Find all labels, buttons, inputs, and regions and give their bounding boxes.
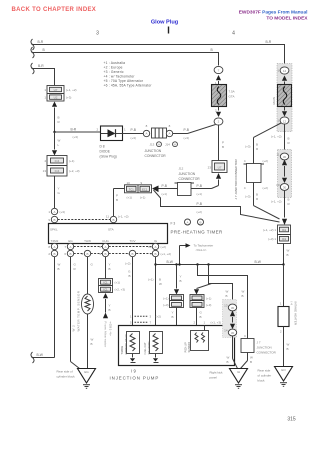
svg-text:1: 1 (124, 128, 126, 132)
svg-text:Right kick: Right kick (210, 371, 224, 375)
svg-text:CONTROL VALVE: CONTROL VALVE (125, 334, 128, 355)
svg-text:B: B (159, 278, 161, 282)
svg-text:INTAKE HEATER: INTAKE HEATER (294, 302, 298, 326)
svg-text:+4 : w/ Tachometer: +4 : w/ Tachometer (104, 75, 136, 79)
svg-text:W: W (287, 249, 290, 253)
svg-text:A: A (158, 143, 160, 147)
svg-text:R: R (256, 197, 259, 201)
svg-text:B: B (211, 48, 214, 52)
svg-text:THW: THW (84, 239, 91, 243)
svg-text:R: R (288, 202, 291, 206)
svg-text:B-W: B-W (167, 260, 174, 264)
svg-text:+2 : Europe: +2 : Europe (104, 66, 123, 70)
svg-text:CONNECTOR: CONNECTOR (145, 154, 167, 158)
svg-text:B: B (91, 342, 93, 346)
svg-text:JUNCTION: JUNCTION (179, 172, 196, 176)
svg-text:R: R (58, 120, 61, 124)
svg-text:30: 30 (283, 185, 287, 189)
svg-text:1: 1 (44, 96, 46, 100)
svg-text:(+1): (+1) (140, 196, 145, 200)
svg-text:IC4: IC4 (55, 169, 60, 173)
svg-text:B: B (227, 360, 229, 364)
svg-text:CHG: CHG (102, 239, 109, 243)
svg-text:I 9: I 9 (131, 369, 136, 374)
svg-text:(+1, +3): (+1, +3) (211, 321, 222, 325)
svg-text:(+1): (+1) (115, 281, 120, 285)
svg-text:(+1): (+1) (163, 297, 168, 301)
svg-text:2: 2 (48, 252, 50, 256)
svg-text:B: B (256, 193, 258, 197)
svg-text:(+3): (+3) (60, 210, 65, 214)
svg-text:(+1): (+1) (127, 196, 132, 200)
svg-text:R: R (288, 141, 291, 145)
svg-text:(+1): (+1) (148, 278, 153, 282)
svg-text:CONNECTOR: CONNECTOR (179, 177, 201, 181)
svg-text:B: B (288, 137, 290, 141)
svg-text:+1 : Australia: +1 : Australia (104, 61, 126, 65)
svg-text:A: A (53, 245, 55, 249)
svg-text:(+1): (+1) (197, 192, 202, 196)
svg-text:P-B: P-B (197, 202, 203, 206)
svg-text:12: 12 (283, 120, 287, 124)
svg-text:F 3: F 3 (171, 222, 176, 226)
svg-text:TC1: TC1 (129, 188, 134, 192)
svg-text:(+3): (+3) (245, 145, 250, 149)
svg-text:EO: EO (281, 368, 286, 372)
svg-text:10: 10 (127, 181, 131, 185)
svg-text:A: A (104, 245, 106, 249)
svg-text:2: 2 (194, 321, 196, 325)
svg-text:B: B (242, 294, 244, 298)
svg-text:7: 7 (150, 321, 152, 325)
svg-text:FUEL CUT: FUEL CUT (144, 342, 147, 355)
svg-text:TCV: TCV (130, 239, 136, 243)
svg-text:BACK TO CHAPTER INDEX: BACK TO CHAPTER INDEX (12, 7, 97, 13)
svg-text:(+1): (+1) (206, 297, 211, 301)
svg-text:T2M2: T2M2 (51, 239, 59, 243)
svg-text:SOLENOID: SOLENOID (148, 341, 151, 354)
svg-text:(+2): (+2) (263, 159, 268, 163)
svg-text:B: B (43, 48, 46, 52)
svg-text:B-R: B-R (71, 128, 77, 132)
svg-text:PRE-HEATING TIMER: PRE-HEATING TIMER (171, 230, 223, 235)
svg-text:(+3): (+3) (184, 136, 189, 140)
svg-text:+3 : Generic: +3 : Generic (104, 70, 124, 74)
svg-text:P-B: P-B (184, 128, 190, 132)
svg-text:G: G (74, 263, 77, 267)
svg-text:JUNCTION: JUNCTION (145, 149, 162, 153)
svg-text:+5 : 70A Type Alternator: +5 : 70A Type Alternator (104, 79, 144, 83)
svg-text:G: G (91, 263, 94, 267)
svg-text:13: 13 (43, 169, 47, 173)
svg-text:14: 14 (224, 329, 228, 333)
svg-text:B: B (256, 143, 258, 147)
svg-text:(+3): (+3) (73, 135, 78, 139)
svg-text:1: 1 (44, 88, 46, 92)
svg-text:1: 1 (130, 315, 132, 319)
svg-text:B: B (112, 218, 114, 222)
svg-text:IC4: IC4 (55, 159, 60, 163)
svg-text:W: W (159, 282, 162, 286)
svg-text:(+3): (+3) (66, 96, 71, 100)
svg-text:B: B (104, 252, 106, 256)
svg-text:10: 10 (276, 183, 280, 187)
svg-text:B: B (180, 279, 182, 283)
svg-text:IC1: IC1 (103, 288, 108, 292)
svg-text:(+1, +2): (+1, +2) (161, 252, 172, 256)
svg-text:8: 8 (169, 124, 171, 128)
svg-text:(+2): (+2) (197, 210, 202, 214)
svg-text:(+2): (+2) (125, 262, 130, 266)
svg-text:B: B (172, 315, 174, 319)
svg-text:B: B (53, 252, 55, 256)
svg-text:B: B (222, 145, 224, 149)
svg-text:1: 1 (48, 210, 50, 214)
svg-text:3: 3 (96, 31, 99, 37)
svg-text:JUNCTION: JUNCTION (257, 346, 272, 350)
svg-text:R: R (256, 147, 259, 151)
svg-text:W: W (242, 290, 245, 294)
svg-text:TIMING: TIMING (121, 346, 124, 355)
svg-text:G: G (58, 191, 61, 195)
svg-text:panel: panel (210, 376, 218, 380)
svg-text:(+1, +2): (+1, +2) (271, 135, 282, 139)
svg-text:B: B (58, 116, 60, 120)
svg-text:W: W (287, 343, 290, 347)
svg-text:+6 : 45A, 55A Type Alternator: +6 : 45A, 55A Type Alternator (104, 84, 153, 88)
svg-text:A: A (154, 245, 156, 249)
svg-text:IG: IG (154, 239, 158, 243)
svg-text:A: A (69, 245, 71, 249)
svg-text:of cylinder: of cylinder (258, 374, 272, 378)
svg-text:DIODE: DIODE (100, 150, 111, 154)
svg-text:<IG1-1>: <IG1-1> (196, 248, 207, 252)
svg-text:J14: J14 (165, 143, 170, 147)
svg-text:B: B (288, 198, 290, 202)
svg-text:Y: Y (172, 311, 174, 315)
svg-text:10: 10 (148, 245, 152, 249)
svg-text:9: 9 (141, 181, 143, 185)
svg-text:2: 2 (97, 128, 99, 132)
svg-text:WATER TEMP. SENSOR: WATER TEMP. SENSOR (77, 290, 81, 331)
svg-text:B: B (109, 308, 111, 312)
svg-text:MAIN: MAIN (272, 97, 276, 105)
svg-text:7: 7 (64, 245, 66, 249)
svg-text:<GB1-4>: <GB1-4> (109, 322, 113, 337)
svg-text:3: 3 (150, 315, 152, 319)
svg-text:EG: EG (68, 239, 73, 243)
svg-text:B-W: B-W (255, 260, 262, 264)
svg-text:30: 30 (231, 306, 235, 310)
svg-text:Y: Y (109, 304, 111, 308)
svg-text:1: 1 (204, 321, 206, 325)
svg-text:(+3): (+3) (131, 136, 136, 140)
svg-text:W: W (250, 356, 253, 360)
svg-text:W: W (58, 139, 61, 143)
svg-text:Y: Y (58, 187, 60, 191)
svg-text:B: B (69, 252, 71, 256)
svg-text:IC1: IC1 (103, 281, 108, 285)
svg-text:To Tachometer: To Tachometer (194, 244, 214, 248)
svg-text:A: A (186, 220, 188, 224)
svg-text:6: 6 (64, 252, 66, 256)
svg-text:(+3) 1: (+3) 1 (268, 237, 276, 241)
svg-text:A: A (174, 143, 176, 147)
svg-text:EG: EG (84, 370, 89, 374)
svg-text:(+2, +3): (+2, +3) (69, 169, 80, 173)
svg-text:GTA: GTA (229, 95, 235, 99)
svg-text:B: B (53, 218, 55, 222)
svg-text:Y: Y (180, 275, 182, 279)
svg-text:B: B (287, 253, 289, 257)
svg-text:From Alternator: From Alternator (104, 322, 108, 348)
svg-text:A: A (145, 132, 147, 136)
svg-text:Rear side: Rear side (258, 369, 271, 373)
svg-text:P-B: P-B (197, 184, 203, 188)
svg-text:(+2): (+2) (156, 315, 161, 319)
svg-text:R: R (74, 267, 77, 271)
svg-text:B: B (287, 347, 289, 351)
svg-text:(Glow Plug): (Glow Plug) (100, 155, 117, 159)
svg-text:B: B (250, 360, 252, 364)
svg-text:G: G (200, 311, 203, 315)
svg-text:30: 30 (283, 155, 287, 159)
svg-text:TO MODEL INDEX: TO MODEL INDEX (266, 16, 308, 22)
svg-text:STA: STA (108, 228, 114, 232)
svg-text:4: 4 (244, 159, 246, 163)
svg-text:P-B: P-B (162, 184, 168, 188)
svg-text:1: 1 (280, 302, 282, 306)
svg-text:U7: U7 (54, 88, 58, 92)
svg-text:W 2: W 2 (72, 325, 76, 332)
svg-text:(+1, +2): (+1, +2) (271, 200, 282, 204)
svg-text:8: 8 (146, 124, 148, 128)
svg-text:(+3): (+3) (245, 195, 250, 199)
svg-text:cylinder block: cylinder block (57, 375, 76, 379)
svg-text:A: A (53, 210, 55, 214)
svg-text:B: B (116, 198, 118, 202)
svg-text:P: P (116, 194, 118, 198)
svg-text:(+1, +2): (+1, +2) (118, 215, 129, 219)
svg-text:B: B (128, 274, 130, 278)
svg-text:B: B (200, 315, 202, 319)
svg-text:IH: IH (237, 370, 240, 374)
svg-text:(+2, +3): (+2, +3) (115, 288, 126, 292)
svg-text:4: 4 (232, 31, 235, 37)
svg-text:EWD307F Pages From Manual: EWD307F Pages From Manual (239, 10, 308, 16)
svg-text:(+1): (+1) (69, 159, 74, 163)
svg-text:B: B (226, 294, 228, 298)
svg-text:(+3): (+3) (206, 303, 211, 307)
svg-text:B: B (86, 252, 88, 256)
svg-text:(+2): (+2) (263, 186, 268, 190)
svg-text:B-R: B-R (266, 40, 272, 44)
svg-text:30: 30 (231, 331, 235, 335)
svg-text:W: W (91, 338, 94, 342)
svg-text:B: B (199, 220, 201, 224)
svg-text:C: C (244, 334, 247, 338)
svg-text:W: W (226, 290, 229, 294)
svg-text:11: 11 (276, 153, 279, 157)
svg-text:7.5A: 7.5A (229, 90, 235, 94)
svg-text:A: A (168, 132, 170, 136)
svg-text:2: 2 (280, 330, 282, 334)
svg-text:G: G (128, 270, 131, 274)
svg-text:(+1, +2): (+1, +2) (66, 88, 77, 92)
svg-text:P-B: P-B (131, 128, 137, 132)
svg-text:J 7 JUNCTION CONNECTOR: J 7 JUNCTION CONNECTOR (234, 159, 238, 200)
svg-text:INJECTION PUMP: INJECTION PUMP (110, 376, 160, 381)
svg-text:L: L (58, 143, 60, 147)
svg-text:W: W (227, 356, 230, 360)
svg-text:B: B (154, 252, 156, 256)
svg-text:(+2): (+2) (161, 245, 166, 249)
svg-text:B: B (131, 252, 133, 256)
svg-text:U2: U2 (54, 96, 58, 100)
svg-text:4: 4 (244, 186, 246, 190)
svg-text:J13: J13 (150, 143, 155, 147)
svg-text:B: B (58, 267, 60, 271)
svg-text:CONNECTOR: CONNECTOR (257, 351, 277, 355)
svg-text:I 4: I 4 (290, 302, 294, 306)
svg-text:IC1: IC1 (282, 228, 287, 232)
svg-text:9: 9 (48, 218, 50, 222)
svg-text:(+1): (+1) (162, 192, 167, 196)
svg-text:5: 5 (130, 321, 132, 325)
svg-text:P: P (222, 141, 224, 145)
svg-text:B-R: B-R (38, 40, 44, 44)
svg-text:W: W (58, 263, 61, 267)
svg-text:Y: Y (109, 263, 111, 267)
svg-text:B-R: B-R (38, 64, 44, 68)
svg-text:11: 11 (106, 215, 109, 219)
svg-text:EC1: EC1 (142, 188, 148, 192)
svg-text:Rear side of: Rear side of (57, 370, 73, 374)
svg-text:B-W: B-W (37, 353, 44, 357)
svg-text:13: 13 (224, 304, 228, 308)
svg-text:(+3): (+3) (163, 303, 168, 307)
svg-text:14: 14 (283, 69, 287, 73)
svg-text:D 8: D 8 (100, 145, 105, 149)
svg-text:4: 4 (44, 159, 46, 163)
svg-text:315: 315 (287, 417, 296, 423)
svg-text:J12: J12 (179, 167, 184, 171)
svg-text:SENSOR: SENSOR (188, 342, 191, 353)
svg-text:block: block (258, 379, 266, 383)
svg-text:IC1: IC1 (282, 237, 287, 241)
svg-text:8: 8 (48, 245, 50, 249)
svg-text:23: 23 (208, 166, 212, 170)
svg-text:U7: U7 (218, 165, 222, 169)
svg-text:J 7: J 7 (257, 341, 261, 345)
svg-text:(+1, +2) 1: (+1, +2) 1 (263, 228, 276, 232)
svg-text:B: B (109, 267, 111, 271)
svg-text:Glow Plug: Glow Plug (151, 20, 179, 26)
svg-text:SPKL: SPKL (50, 228, 58, 232)
